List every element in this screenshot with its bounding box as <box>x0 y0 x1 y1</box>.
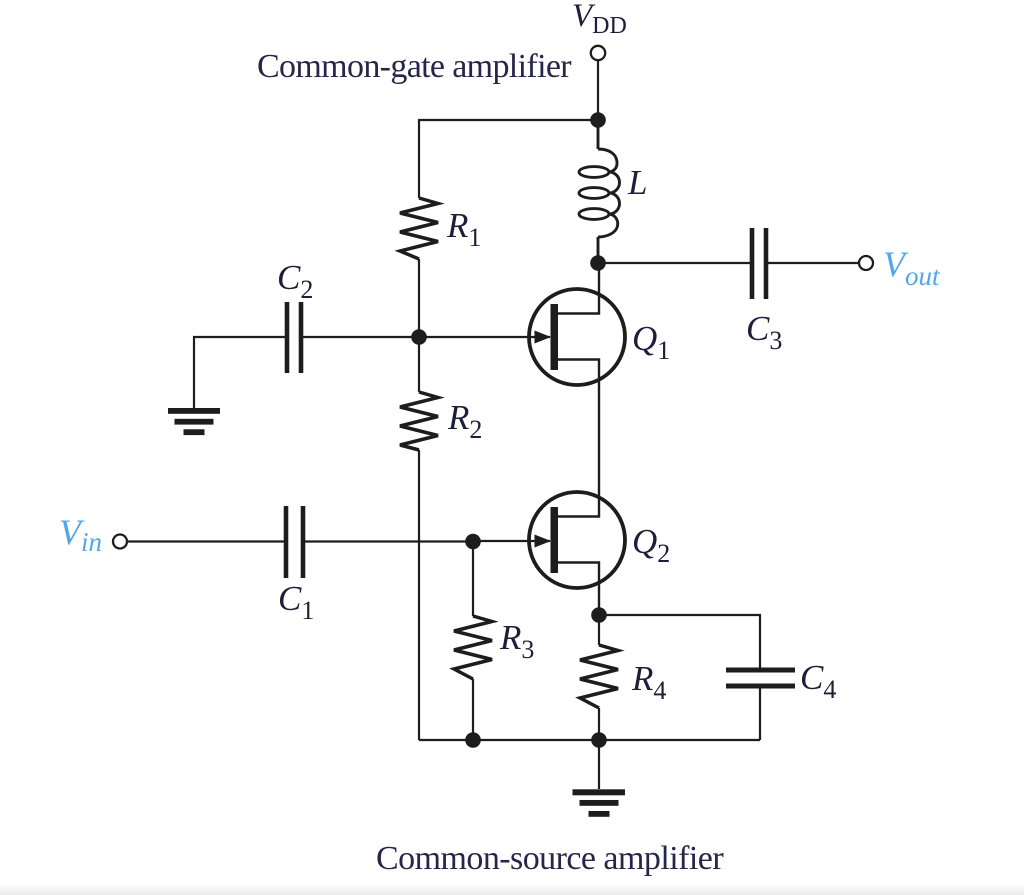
wire R4 to bottom rail <box>598 708 600 740</box>
wire C2 left to ground <box>194 337 287 408</box>
capacitor C3 <box>752 228 766 299</box>
wire R1 to gate node <box>418 259 420 337</box>
wire C1 to Q2 gate node <box>303 540 473 542</box>
wire Vin to C1 <box>127 540 287 542</box>
svg-text:Common-gate amplifier: Common-gate amplifier <box>257 48 572 85</box>
svg-text:Common-source amplifier: Common-source amplifier <box>376 840 724 877</box>
capacitor C1 <box>286 506 303 578</box>
bottom rail wire <box>419 739 760 741</box>
node bottom center (junction dot) <box>591 732 607 748</box>
wire VDD down to top node <box>597 60 599 120</box>
resistor R2 <box>400 392 438 450</box>
node gate bias (junction dot) <box>411 329 427 345</box>
wire node to R3 <box>472 542 474 617</box>
wire node to C3 <box>598 262 752 264</box>
ground (C2 side) <box>168 408 220 435</box>
terminal Vout <box>859 256 873 270</box>
resistor R3 <box>454 616 492 679</box>
terminal Vin <box>113 535 127 549</box>
wire R3 to bottom rail <box>472 679 474 740</box>
transistor Q1 <box>419 263 625 420</box>
wire R2 down to bottom rail <box>418 450 420 740</box>
wire C3 to Vout terminal <box>766 262 859 264</box>
node drain (junction dot) <box>590 255 606 271</box>
node top (junction dot) <box>590 112 606 128</box>
capacitor C4 <box>726 670 795 686</box>
svg-text:L: L <box>627 163 647 202</box>
terminal VDD <box>591 46 605 60</box>
wire C2 right to node <box>301 336 419 338</box>
node source (junction dot) <box>591 607 607 623</box>
node Q2 gate (junction dot) <box>465 534 481 550</box>
transistor Q2 <box>473 420 625 615</box>
resistor R1 <box>400 198 438 259</box>
wire source node to R4 <box>598 615 600 645</box>
inductor L <box>579 120 620 263</box>
wire bottom node to ground <box>598 740 600 789</box>
wire gate node down to R2 <box>418 337 420 392</box>
capacitor C2 <box>287 302 301 373</box>
ground (bottom) <box>573 789 626 817</box>
wire top rail to R1 <box>419 120 598 198</box>
wire C4 to bottom rail <box>759 686 761 740</box>
resistor R4 <box>580 645 618 708</box>
node bottom left (junction dot) <box>465 732 481 748</box>
wire source node to C4 <box>599 615 760 670</box>
